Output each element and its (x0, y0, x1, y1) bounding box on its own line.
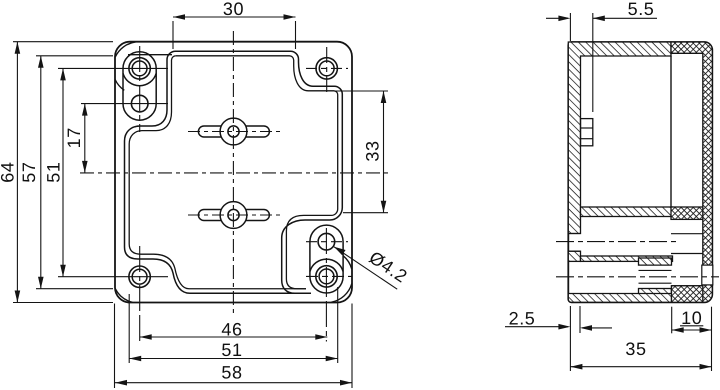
upper boss centerline (188, 131, 281, 133)
lower boss (198, 202, 269, 229)
svg-text:2.5: 2.5 (509, 309, 536, 329)
BL hole (129, 266, 150, 287)
side view centerlines (556, 242, 719, 277)
svg-text:57: 57 (19, 161, 39, 182)
bottom wall hatch (568, 294, 672, 303)
BL clipped big arc (115, 289, 132, 303)
BR small hole horizontal centerline (306, 241, 348, 243)
BL hole vertical centerline + 46 ext (139, 246, 141, 342)
dimension labels front (0, 0, 411, 383)
arrowheads front (15, 14, 387, 385)
lid inner face line (670, 56, 672, 207)
svg-text:46: 46 (221, 320, 242, 340)
boss block hatch bottom (639, 289, 672, 296)
BR corner lobe (310, 225, 343, 293)
dim 2.5 ext line right (579, 306, 581, 333)
upper boss (198, 118, 269, 145)
thin band hatch (581, 256, 673, 261)
dim 5.5 ext lines (569, 13, 571, 41)
svg-text:33: 33 (363, 140, 383, 161)
5.5 arrows (558, 15, 570, 21)
BR small hole (318, 233, 335, 250)
dim 17 line (84, 104, 86, 173)
centerlines front view (58, 31, 390, 342)
side view dim arrows (558, 15, 711, 369)
TL small hole (131, 95, 148, 112)
dim 33 line (383, 91, 385, 213)
dim 57 line (40, 56, 42, 289)
TR hole (316, 58, 337, 79)
dim 51 bottom line (129, 358, 338, 360)
lower boss centerline (188, 214, 281, 216)
2.5 arrows (558, 324, 570, 330)
dim 64 arrows (15, 42, 21, 54)
BR arc above main hole (310, 259, 343, 271)
side view outer outline (568, 42, 712, 302)
svg-text:10: 10 (681, 308, 702, 328)
lid floor block cross-hatch (671, 207, 703, 219)
dim 46 line (140, 336, 328, 338)
dim 10 label underline (680, 325, 703, 327)
dim 10 ext line (671, 307, 673, 334)
dia 4.2 arrow (334, 247, 346, 255)
right wall notch white (702, 265, 713, 285)
BR main hole horizontal centerline (306, 275, 352, 277)
left wall hatch lower segment (568, 251, 580, 261)
dim 35 line (570, 366, 711, 368)
dim 30 ext lines (172, 21, 174, 49)
BR holes vertical centerline + 46 ext (325, 228, 327, 342)
lid top band cross-hatch (671, 42, 712, 302)
side view labels (509, 0, 703, 359)
TL hole vertical centerline (139, 46, 141, 132)
lid outline inner line (TL-S, left, BL-S) (129, 56, 306, 289)
lid bottom block cross-hatch (672, 286, 703, 303)
svg-text:Ø4.2: Ø4.2 (366, 247, 412, 287)
dim 58 line (115, 382, 352, 384)
dim 64 line (16, 42, 18, 303)
main hole centerline (556, 276, 719, 278)
dim 33 arrows (381, 91, 387, 103)
lid pocket lines (671, 233, 703, 235)
dia 4.2 leader (334, 247, 397, 289)
dim 51 left arrows (60, 68, 66, 80)
lid outline inner line (hump, TR-S, right, BR-S, bottom) (176, 56, 338, 289)
TL clipped big arc lower sliver (115, 80, 124, 91)
svg-text:58: 58 (221, 363, 242, 383)
boss thread lines (639, 269, 672, 271)
TL corner lobe (123, 52, 156, 120)
dim 51 left line (62, 68, 64, 276)
TL clipped big arc (115, 42, 135, 57)
BR clipped big arcs (331, 284, 352, 303)
dim 57 arrows (38, 56, 44, 68)
TR hole horizontal centerline (306, 67, 348, 69)
BR main hole (316, 266, 337, 287)
dim 51 bottom arrows (129, 356, 141, 362)
svg-text:64: 64 (0, 161, 18, 182)
dim 10 line (672, 329, 712, 331)
boss block hatch top (639, 258, 672, 265)
svg-text:30: 30 (223, 0, 244, 19)
dim 2.5 leaders (505, 326, 568, 328)
35 arrows (570, 364, 582, 370)
TR hole vertical centerline (326, 47, 328, 92)
dim 5.5 leader (546, 17, 568, 19)
lid outline outer line (TL-S, left, BL-S) (125, 51, 312, 293)
floor hatch (581, 207, 673, 217)
TL line over lobe (128, 54, 172, 56)
wall hole boundary lines (568, 233, 580, 235)
dim 30 arrows (173, 14, 185, 20)
dim 17 arrows (82, 104, 88, 116)
dim 33 ext lines (335, 90, 388, 92)
svg-text:51: 51 (221, 340, 242, 360)
svg-text:5.5: 5.5 (628, 0, 655, 19)
TL main hole horizontal centerline + 51 ext (58, 67, 168, 69)
side view dimensions (505, 13, 712, 371)
dim 64 ext lines (13, 41, 113, 43)
rib on back wall (581, 119, 593, 146)
horizontal main centerline (80, 172, 390, 174)
TL main hole (129, 58, 150, 79)
10 arrows (672, 327, 684, 333)
dim 57 ext line (36, 55, 113, 57)
svg-text:35: 35 (625, 339, 646, 359)
TL small hole horizontal centerline + 17 ext (81, 103, 168, 105)
svg-text:17: 17 (64, 127, 84, 148)
dim 58 ext lines (114, 304, 116, 389)
vertical main centerline (232, 31, 234, 313)
dim 30 line (173, 16, 296, 18)
BL hole horizontal centerline + 51 ext (58, 276, 168, 278)
dim 35 ext lines (569, 306, 571, 371)
dim 51 bottom ext lines (128, 294, 130, 363)
dim 46 arrows (140, 334, 152, 340)
TL arc below main hole (123, 73, 156, 85)
lid outline outer line (hump, TR-S, right, BR-S, bottom) (176, 51, 343, 293)
front view outer outline (115, 42, 352, 303)
dim 58 arrows (115, 380, 127, 386)
svg-text:51: 51 (44, 161, 64, 182)
small hole centerline (556, 241, 676, 243)
top wall hatch (568, 42, 671, 234)
